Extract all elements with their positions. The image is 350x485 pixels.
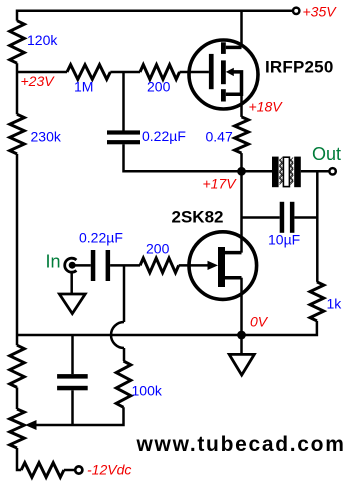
svg-text:+23V: +23V: [21, 73, 56, 89]
svg-text:230k: 230k: [31, 129, 62, 145]
svg-text:1k: 1k: [327, 296, 343, 312]
svg-text:In: In: [46, 252, 61, 272]
svg-text:www.tubecad.com: www.tubecad.com: [136, 433, 346, 456]
svg-text:+35V: +35V: [303, 4, 338, 20]
svg-text:0.22µF: 0.22µF: [142, 128, 186, 144]
svg-text:10µF: 10µF: [268, 232, 300, 248]
svg-text:120k: 120k: [27, 32, 58, 48]
svg-text:200: 200: [147, 79, 171, 95]
svg-text:+17V: +17V: [203, 176, 238, 192]
svg-text:0.47: 0.47: [206, 129, 233, 145]
svg-text:2SK82: 2SK82: [172, 208, 224, 227]
svg-text:IRFP250: IRFP250: [265, 58, 334, 77]
svg-text:1M: 1M: [74, 79, 93, 95]
svg-text:100k: 100k: [132, 383, 163, 399]
svg-text:+18V: +18V: [249, 99, 284, 115]
svg-text:200: 200: [146, 241, 170, 257]
svg-text:Out: Out: [312, 144, 341, 164]
svg-text:0.22µF: 0.22µF: [79, 230, 123, 246]
svg-text:0V: 0V: [250, 314, 269, 330]
svg-text:-12Vdc: -12Vdc: [87, 462, 131, 478]
